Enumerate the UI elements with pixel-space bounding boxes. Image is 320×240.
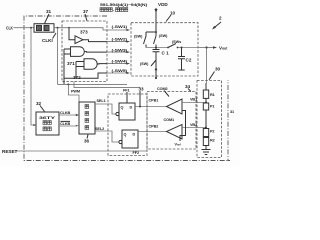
wire CLK down to block 32 [31, 28, 36, 125]
svg-text:34: 34 [185, 84, 191, 89]
svg-text:371: 371 [67, 61, 75, 66]
leader 10 [166, 15, 171, 22]
svg-text:(-SW2): (-SW2) [112, 38, 129, 42]
svg-text:372: 372 [73, 75, 81, 80]
svg-text:(-SW1): (-SW1) [112, 25, 129, 29]
resistor R1 [203, 90, 208, 98]
svg-text:Vref: Vref [175, 143, 181, 147]
svg-text:(-SW4): (-SW4) [112, 60, 129, 64]
bus wire 1 [58, 83, 128, 85]
wire PWM [68, 84, 79, 102]
svg-text:CPB2: CPB2 [149, 125, 159, 129]
wire VB1 tap [182, 102, 206, 104]
wire Vref rail [180, 111, 186, 142]
svg-text:P1: P1 [210, 105, 214, 109]
AND gate 372 [84, 59, 97, 69]
clock bubble FF2 [119, 140, 122, 143]
dashed box 33 [108, 94, 147, 156]
node C2 [181, 47, 183, 49]
VDD arrow [155, 8, 157, 23]
node CLKI [57, 27, 59, 29]
wire VDD node [146, 23, 156, 32]
leader 32 [40, 106, 45, 112]
wire SEL2 [95, 131, 119, 142]
wire row1 to box10 [107, 29, 130, 31]
wire row2 to box10 [107, 41, 130, 43]
wire 371 out [84, 51, 107, 54]
svg-text:VB2: VB2 [190, 123, 197, 127]
text 32 row2 [43, 121, 51, 125]
dashed box 34 [147, 92, 196, 150]
svg-text:Q: Q [124, 133, 127, 137]
header text line2 [100, 8, 128, 12]
svg-text:Vout: Vout [219, 46, 228, 51]
leader 36 [87, 135, 88, 139]
wire CLK [14, 27, 35, 29]
svg-text:36TY: 36TY [39, 116, 56, 120]
svg-text:(SW): (SW) [140, 62, 149, 66]
svg-text:R1: R1 [210, 93, 215, 97]
svg-text:31: 31 [46, 9, 52, 14]
node PWM [67, 83, 69, 85]
svg-text:VDD: VDD [158, 2, 168, 7]
svg-text:SEL1: SEL1 [97, 99, 106, 103]
leader 31 [45, 14, 50, 24]
wire comp1 to FF1 [135, 106, 167, 108]
svg-text:CLKB: CLKB [60, 122, 71, 126]
wire SEL1 [95, 104, 116, 114]
svg-text:FF2: FF2 [133, 151, 139, 155]
wire CLKI down [57, 28, 59, 85]
svg-text:(SW): (SW) [134, 35, 143, 39]
capacitor C1 [153, 48, 160, 79]
text 36 [85, 105, 89, 130]
svg-text:10: 10 [170, 11, 176, 16]
switch SWs [168, 44, 176, 48]
wire comp2 to FF2 [138, 131, 167, 133]
switch SW2 [154, 32, 157, 48]
wire node B [146, 47, 168, 49]
switch SW1 [144, 32, 147, 48]
clock bubble FF1 [116, 112, 119, 115]
wire 372 out [97, 63, 107, 65]
wire Vout [198, 47, 213, 49]
svg-text:Q: Q [121, 106, 124, 110]
svg-text:37: 37 [83, 9, 89, 14]
svg-text:30: 30 [215, 67, 221, 72]
wire row3 to box10 [107, 51, 130, 53]
svg-text:D: D [130, 106, 133, 110]
dashed box 30 ladder [197, 81, 222, 158]
flip-flop FF1 [119, 103, 135, 120]
wire CLKB1 [59, 114, 77, 116]
wire mid [205, 110, 207, 129]
leader 33 [139, 91, 141, 107]
wire row4 to box10 [107, 63, 130, 65]
leader 30 [209, 72, 215, 80]
wire inner bottom [64, 73, 108, 78]
svg-text:SEL2: SEL2 [95, 127, 104, 131]
bus wire 2 [74, 82, 140, 88]
wire tap1 [205, 83, 207, 103]
wire 373 out [83, 40, 107, 42]
svg-text:RESET: RESET [2, 149, 18, 154]
svg-text:C2: C2 [186, 58, 192, 63]
buffer 373 input wire [69, 28, 75, 40]
svg-text:(-SW3): (-SW3) [112, 49, 129, 53]
switch SW3 on lower wire [151, 60, 156, 66]
arrow 2 [214, 22, 222, 28]
AND gate 372 inputs [76, 62, 84, 79]
node 32 in [33, 124, 35, 126]
wire VB2 tap [182, 127, 206, 129]
text 32 row3 [43, 127, 51, 131]
svg-text:33: 33 [139, 87, 145, 92]
AND gate 371 inputs [64, 49, 71, 84]
svg-text:PWM: PWM [71, 90, 80, 94]
block 36 selection [79, 102, 95, 134]
dashed box 10 [131, 23, 198, 76]
AND gate 371 [71, 47, 85, 57]
wire feedback down [206, 48, 208, 84]
svg-text:FF1: FF1 [123, 89, 129, 93]
wire RESET [16, 150, 147, 152]
svg-text:36: 36 [84, 139, 90, 144]
svg-text:R2: R2 [210, 139, 215, 143]
svg-text:C 1: C 1 [162, 51, 170, 56]
arrow COM2 up [155, 67, 158, 71]
flip-flop FF2 [122, 130, 138, 148]
arrow Vout [213, 46, 217, 49]
svg-text:CLK: CLK [6, 25, 13, 30]
svg-text:591-594(d(1)~94(5(N): 591-594(d(1)~94(5(N) [100, 3, 148, 7]
resistor P1 [203, 103, 208, 110]
svg-text:(SW): (SW) [159, 34, 168, 38]
resistor R2 [203, 138, 208, 146]
svg-text:CLKI: CLKI [42, 38, 53, 43]
wire CLKI [54, 28, 107, 30]
svg-text:COM2: COM2 [157, 87, 168, 91]
wire row5 to box10 [107, 72, 130, 74]
block 32 [36, 112, 59, 135]
outer dash-dot boundary [24, 16, 230, 161]
buffer block 31 [34, 24, 54, 33]
svg-text:COM1: COM1 [164, 118, 175, 122]
leader 37 [85, 14, 87, 21]
leader 34 [188, 89, 191, 92]
leader FF1 [126, 92, 128, 103]
comparator COM1 [167, 125, 183, 140]
svg-text:373: 373 [80, 30, 88, 35]
svg-text:(SWs: (SWs [172, 40, 181, 44]
buffer 373 [75, 36, 83, 44]
resistor P2 [203, 129, 208, 137]
dashed box 37 [62, 21, 107, 82]
svg-text:CPB1: CPB1 [149, 99, 159, 103]
ground [202, 146, 211, 155]
svg-text:2: 2 [219, 16, 222, 21]
svg-text:31: 31 [230, 110, 234, 114]
comparator COM2 [167, 99, 183, 114]
svg-text:32: 32 [36, 101, 42, 106]
node CLK branch [30, 27, 32, 29]
svg-text:CLKB: CLKB [60, 111, 71, 115]
svg-text:VB1: VB1 [190, 98, 197, 102]
wire CLKB2 [59, 125, 77, 127]
capacitor C2 [178, 48, 185, 71]
svg-text:D: D [133, 133, 136, 137]
node Vout [205, 46, 207, 48]
svg-text:P2: P2 [210, 130, 214, 134]
svg-text:(-SW5): (-SW5) [112, 69, 129, 73]
